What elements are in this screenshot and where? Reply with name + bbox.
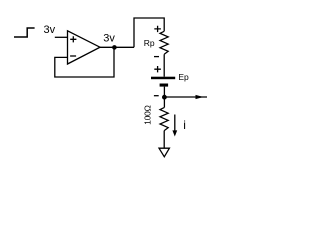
- label 100ohm (rotated): [143, 104, 153, 124]
- polarity + (battery Ep): [154, 66, 161, 72]
- battery Ep long plate: [151, 77, 175, 80]
- label 3v (output node): [103, 32, 115, 44]
- op-amp + input marker: [70, 36, 76, 42]
- wire: output up and over to Rp: [134, 18, 164, 47]
- polarity + (top of Rp): [154, 26, 161, 32]
- polarity - (battery Ep): [154, 95, 159, 97]
- svg-text:i: i: [183, 118, 186, 132]
- resistor 100ohm zigzag: [160, 108, 168, 131]
- svg-text:Rp: Rp: [144, 38, 155, 48]
- label Ep: [178, 72, 189, 82]
- label Rp: [144, 38, 155, 48]
- wire: node to right with arrowhead: [164, 95, 207, 99]
- wire: battery to node: [163, 87, 165, 98]
- wire: op-amp output: [100, 46, 134, 48]
- wire: feedback loop output to inverting input: [55, 47, 114, 77]
- svg-text:100Ω: 100Ω: [143, 104, 153, 124]
- wire: source to op-amp noninverting input: [55, 36, 68, 38]
- op-amp - input marker: [70, 55, 76, 57]
- svg-text:3v: 3v: [44, 24, 56, 36]
- wire: node down to 100 ohm resistor: [163, 97, 165, 107]
- wire: Rp to battery Ep: [163, 54, 165, 76]
- step source symbol: [14, 28, 35, 37]
- label i: [183, 118, 186, 132]
- svg-text:3v: 3v: [103, 32, 115, 44]
- ground: [159, 148, 169, 157]
- current arrow i: [172, 115, 177, 137]
- node: op-amp output junction: [112, 45, 117, 50]
- wire: resistor to ground: [163, 131, 165, 149]
- battery Ep short plate: [160, 84, 169, 87]
- op-amp U1 triangle: [68, 31, 101, 64]
- label 3v (source): [44, 24, 56, 36]
- svg-text:Ep: Ep: [178, 72, 189, 82]
- polarity - (bottom of Rp): [154, 56, 159, 58]
- node A junction dot: [162, 95, 167, 100]
- resistor Rp zigzag: [160, 31, 168, 54]
